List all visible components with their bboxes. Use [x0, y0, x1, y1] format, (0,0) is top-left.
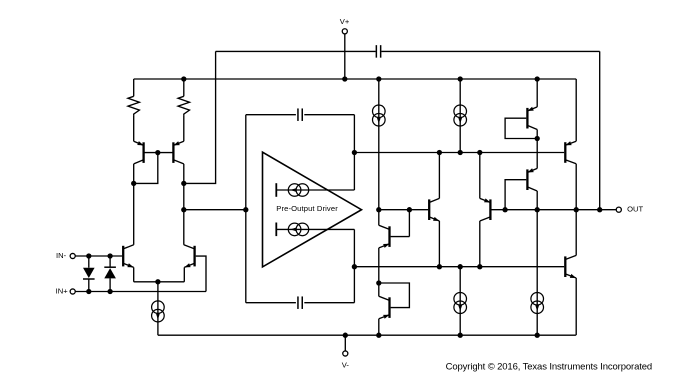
- junction dot V+ rail / V+ terminal: [342, 76, 347, 81]
- label IN+: [56, 287, 69, 296]
- junction dot right collector to driver: [181, 207, 186, 212]
- op-amp U1 (pre-output driver triangle): [263, 152, 362, 267]
- junction dot bottom drive branch: [352, 264, 357, 269]
- current source I6 (to V-, left): [454, 292, 467, 313]
- current source I4 (from V+, left): [373, 105, 386, 126]
- svg-text:IN+: IN+: [56, 287, 69, 296]
- wire CS4 vertical (OUT node to V- rail): [536, 210, 538, 336]
- wire rail1 right leg down to OUT node: [599, 51, 601, 209]
- junction dot node right mirror/collector: [181, 181, 186, 186]
- junction dot Q8 collector on OUT line: [535, 207, 540, 212]
- junction dot Q5 emitter on bottom drive: [437, 264, 442, 269]
- wire feedback box top-right vertical: [353, 115, 355, 190]
- wire Q3 emitter down to Q4 collector: [378, 248, 380, 296]
- wire feedback box bottom: [246, 302, 355, 304]
- wire feedback box bottom-right vertical: [353, 229, 355, 302]
- transistor Q11 (PNP output, to V+): [565, 79, 576, 210]
- resistor R2: [178, 79, 189, 141]
- label V+: [340, 17, 350, 26]
- junction dot mirror bases: [155, 150, 160, 155]
- current source I1 (input tail): [152, 301, 165, 322]
- wire U1 upper output line: [276, 189, 354, 191]
- wire top drive line to Q11 base: [354, 152, 564, 154]
- wire common emitter line: [134, 281, 185, 283]
- wire Q1 collector / N1 collector vertical: [133, 164, 135, 245]
- junction dot Q3 base riser on mid line: [407, 207, 412, 212]
- capacitor C3 (bottom feedback): [298, 296, 302, 309]
- junction dot D1 at IN- line: [86, 253, 91, 258]
- terminal tick lower (inside U1): [275, 223, 277, 237]
- junction dot Q5 collector on top drive: [437, 150, 442, 155]
- junction dot node left mirror/collector: [131, 181, 136, 186]
- junction dot CS1 bottom / mid node: [376, 207, 381, 212]
- junction dot D2 at IN+ line: [107, 289, 112, 294]
- transistor Q8 (PNP, output driver right): [505, 139, 537, 210]
- capacitor C1 (Miller compensation, on top line): [376, 45, 380, 58]
- wire Q14 base loop to IN+: [196, 256, 206, 291]
- junction dot Q9 collector on bottom drive: [477, 264, 482, 269]
- wire Q2 collector / N2 collector vertical: [183, 164, 185, 245]
- junction dot top drive branch: [352, 150, 357, 155]
- wire mirror bases down to Q1 collector: [134, 153, 158, 184]
- transistor Q4 (PNP diode-connected, lower): [379, 283, 410, 335]
- wire CS1 vertical (V+ rail to mid node): [378, 79, 380, 210]
- transistor Q2 (PNP current mirror, right): [173, 141, 183, 164]
- capacitor C2 (top feedback): [298, 108, 302, 121]
- junction dot tail node: [155, 279, 160, 284]
- terminal IN+: [70, 289, 206, 294]
- junction dot Q9 emitter on top drive: [477, 150, 482, 155]
- junction dot D1 at IN+ line: [86, 289, 91, 294]
- svg-text:Pre-Output Driver: Pre-Output Driver: [276, 204, 338, 213]
- current source I7 (to V-, right): [531, 292, 544, 313]
- transistor Q7 (PNP diode-connected, top right): [505, 79, 537, 139]
- transistor Q3 (PNP diode-connected, upper): [379, 210, 410, 248]
- junction dot Q4 base loop: [376, 280, 381, 285]
- label V-: [342, 360, 350, 369]
- transistor Q5 (NPN, mid stage): [429, 153, 439, 267]
- junction dot D2 at IN- line: [107, 253, 112, 258]
- wire rail1 left leg down to first-stage node: [184, 51, 216, 183]
- transistor Q13 (NPN input, inverting): [123, 245, 134, 282]
- junction dot CS3 bottom: [458, 333, 463, 338]
- wire CS3 vertical: [459, 267, 461, 336]
- terminal V+: [342, 29, 347, 79]
- junction dot CS2 top: [458, 76, 463, 81]
- wire Q1-Q2 base link: [144, 152, 174, 154]
- diode D2 (clamp, cathode up): [104, 256, 116, 292]
- wire compensation line from first stage node to OUT (top): [216, 50, 600, 52]
- resistor R1: [128, 79, 139, 141]
- transistor Q12 (NPN output, to V-): [565, 210, 576, 336]
- label IN-: [56, 251, 67, 260]
- label Pre-Output Driver: [276, 204, 338, 213]
- current source I5 (from V+, right): [454, 105, 467, 126]
- current source I3 (lower, inside U1): [288, 223, 308, 236]
- svg-text:OUT: OUT: [627, 205, 643, 214]
- label OUT: [627, 205, 643, 214]
- wire feedback box top: [246, 114, 355, 116]
- transistor Q14 (NPN input, non-inverting): [184, 245, 195, 282]
- svg-text:Copyright © 2016, Texas Instru: Copyright © 2016, Texas Instruments Inco…: [446, 361, 652, 372]
- wire V+ rail: [134, 78, 577, 80]
- junction dot Q7 top on V+ rail: [535, 76, 540, 81]
- wire V- rail: [158, 334, 576, 336]
- label copyright: [446, 361, 652, 372]
- terminal OUT: [616, 207, 621, 212]
- wire tail: [157, 282, 159, 335]
- junction dot CS2 bottom: [458, 150, 463, 155]
- junction dot Q11 collector on OUT: [574, 207, 579, 212]
- wire bottom drive line to Q12 base: [354, 266, 564, 268]
- transistor Q9 (PNP, output driver left): [480, 153, 491, 267]
- wire first stage output to pre-output driver: [184, 209, 246, 211]
- current source I2 (upper, inside U1): [288, 184, 308, 197]
- transistor Q1 (PNP current mirror, left): [134, 141, 144, 164]
- junction dot CS1 top: [376, 76, 381, 81]
- diode D1 (clamp, cathode down): [83, 256, 95, 292]
- svg-text:IN-: IN-: [56, 251, 67, 260]
- junction dot V- terminal on rail: [343, 333, 348, 338]
- wire U1 lower output line: [276, 228, 354, 230]
- junction dot driver input on box: [243, 207, 248, 212]
- wire feedback box left vertical: [245, 115, 247, 303]
- terminal IN-: [70, 253, 122, 258]
- wire mid node to Q5 base: [379, 209, 428, 211]
- junction dot Q7 collector-base: [535, 136, 540, 141]
- svg-text:V-: V-: [342, 360, 350, 369]
- wire OUT line: [492, 209, 617, 211]
- junction dot R2 top on V+ rail: [181, 76, 186, 81]
- terminal V-: [343, 335, 348, 356]
- junction dot CS4 bottom: [535, 333, 540, 338]
- wire CS2 vertical: [459, 79, 461, 153]
- svg-text:V+: V+: [340, 17, 350, 26]
- junction dot CS3 top: [458, 264, 463, 269]
- junction dot output PNP bases node: [502, 207, 507, 212]
- junction dot Q4 emitter on V- rail: [376, 333, 381, 338]
- junction dot comp right leg on OUT: [597, 207, 602, 212]
- terminal tick upper (inside U1): [275, 183, 277, 197]
